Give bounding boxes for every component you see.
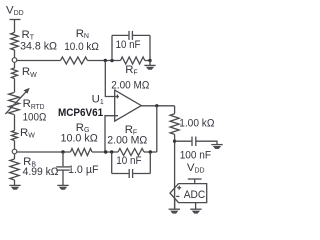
- junction dot G: [149, 150, 152, 153]
- wire inverting input: [105, 116, 118, 152]
- ground at ADC minus: [169, 209, 180, 213]
- wire ADC bottom to ground: [195, 203, 197, 210]
- svg-text:ADC: ADC: [184, 189, 206, 201]
- wire node B to C1: [17, 151, 71, 153]
- wire RW lower to node B: [14, 141, 16, 150]
- svg-text:1.00 kΩ: 1.00 kΩ: [179, 117, 215, 129]
- wire bottom cap row right: [133, 173, 150, 175]
- ground under 1.0 uF: [57, 185, 68, 189]
- resistor RB: [10, 159, 19, 180]
- svg-text:100 nF: 100 nF: [180, 150, 211, 162]
- wire output down to feedback row: [156, 106, 158, 152]
- wire RRTD to RW lower: [14, 115, 16, 131]
- wire H to 100 nF: [175, 140, 192, 142]
- junction dot F2 (to bottom cap): [110, 150, 113, 153]
- ground at ADC bottom: [190, 209, 201, 213]
- wire C1 cap to ground: [62, 170, 64, 185]
- resistor RW upper: [12, 68, 18, 79]
- capacitor 10 nF top: [129, 31, 132, 40]
- capacitor 100 nF: [192, 137, 196, 147]
- wire 1k to node H: [174, 134, 176, 141]
- wire node A to RW: [14, 62, 16, 68]
- wire bottom cap row left: [112, 173, 129, 175]
- ground at RF top: [144, 65, 155, 69]
- wire RN to node C: [88, 60, 121, 62]
- wire up to top cap loop left: [111, 35, 113, 60]
- wire node A to RN: [17, 60, 61, 62]
- supply VDD top-left symbol: [10, 20, 21, 33]
- svg-text:10.0 kΩ: 10.0 kΩ: [64, 41, 99, 53]
- wire output corner down to R 1k: [174, 106, 176, 114]
- wire top cap row right: [133, 34, 150, 36]
- resistor RW lower: [12, 131, 18, 141]
- svg-text:1.0 µF: 1.0 µF: [68, 164, 99, 176]
- svg-text:10.0 kΩ: 10.0 kΩ: [61, 133, 99, 145]
- resistor RF top: [121, 57, 145, 64]
- supply VDD ADC symbol: [188, 179, 202, 184]
- resistor RN: [61, 57, 88, 64]
- svg-text:4.99 kΩ: 4.99 kΩ: [23, 166, 59, 178]
- resistor 1.00 k: [170, 114, 179, 135]
- junction dot C2 (to top cap): [110, 59, 113, 62]
- svg-text:34.8 kΩ: 34.8 kΩ: [20, 40, 57, 52]
- wire top cap row left: [112, 34, 128, 36]
- ground under RB: [9, 185, 20, 189]
- wire RW to RRTD: [14, 79, 16, 93]
- wire RG to inverting node: [92, 151, 118, 153]
- svg-text:100Ω: 100Ω: [23, 111, 47, 123]
- wire RT to node A: [14, 50, 16, 58]
- capacitor 10 nF bottom: [129, 169, 132, 178]
- svg-text:2.00 MΩ: 2.00 MΩ: [107, 135, 147, 147]
- svg-text:2.00 MΩ: 2.00 MΩ: [111, 80, 149, 92]
- svg-text:MCP6V61: MCP6V61: [58, 107, 103, 119]
- ADC minus sign: [176, 195, 179, 197]
- wire down to RF top row: [149, 35, 151, 60]
- junction dot F1 (to op-amp -): [104, 150, 107, 153]
- resistor RRTD: [9, 93, 20, 115]
- wire RB to ground: [14, 180, 16, 185]
- wire E down to C1 cap: [62, 152, 64, 166]
- wire node B to RB: [14, 154, 16, 159]
- junction dot C1 (to op-amp +): [104, 59, 107, 62]
- op-amp U1 plus sign: [116, 95, 118, 99]
- ground at 100 nF: [211, 145, 222, 149]
- wire ADC input overlay: [174, 186, 176, 209]
- wire RF top to ground node: [145, 60, 150, 62]
- wire noninverting input: [105, 61, 119, 97]
- svg-text:10 nF: 10 nF: [116, 39, 141, 51]
- resistor RG: [71, 149, 93, 156]
- node B (open circle junction): [12, 149, 17, 154]
- wire 100 nF to ground: [196, 141, 217, 144]
- resistor RT: [11, 33, 19, 51]
- svg-text:10 nF: 10 nF: [116, 155, 141, 167]
- RRTD variable arrow: [5, 88, 30, 114]
- wire bottom cap loop left: [111, 152, 113, 174]
- junction dot D: [148, 59, 151, 62]
- junction dot H: [173, 140, 176, 143]
- resistor RF bottom: [118, 149, 144, 156]
- wire H down to ADC input: [174, 141, 176, 209]
- ADC plus sign: [177, 186, 181, 190]
- junction dot output: [155, 104, 158, 107]
- op-amp U1: [115, 90, 142, 121]
- wire bottom cap loop right: [149, 152, 151, 174]
- wire op-amp output: [141, 105, 174, 107]
- junction dot E (1.0 uF tap): [61, 150, 64, 153]
- wire RF bottom to output branch: [144, 151, 157, 153]
- wire D to ground: [149, 61, 151, 66]
- node A (open circle junction): [12, 58, 17, 63]
- ADC block: [170, 184, 207, 203]
- capacitor 1.0 uF: [56, 167, 70, 170]
